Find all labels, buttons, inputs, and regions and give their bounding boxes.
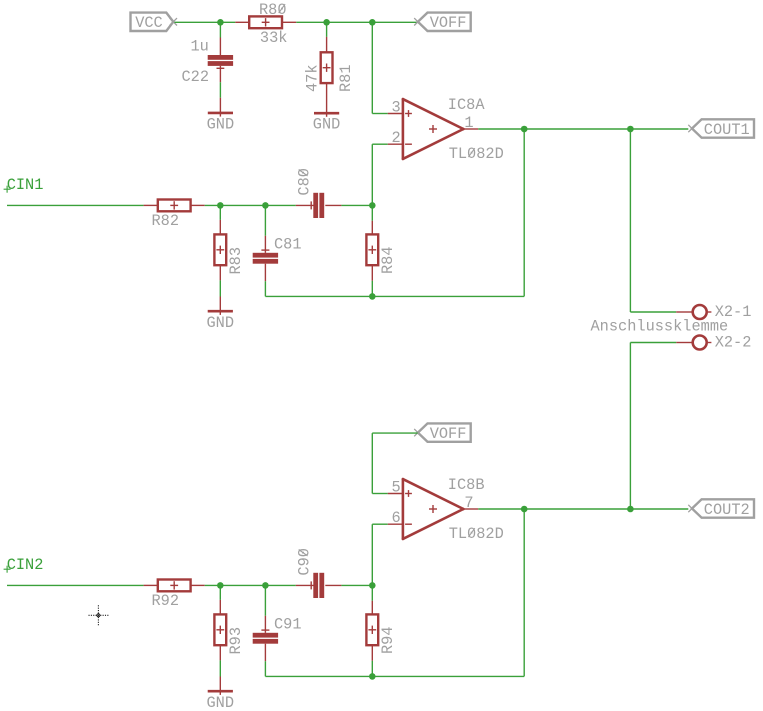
- svg-text:COUT2: COUT2: [704, 501, 750, 519]
- wire stub to C81: [264, 205, 266, 235]
- resistor R83: [219, 220, 221, 234]
- pin lead X2-2: [676, 342, 691, 344]
- wire input node: [205, 204, 296, 206]
- label R93: [227, 627, 245, 655]
- label C90: [296, 548, 314, 576]
- wire feedback bottom run 2: [265, 675, 524, 677]
- ground GND under C22: [219, 98, 221, 117]
- ground GND under R93: [219, 677, 221, 695]
- wire inverting node vertical: [371, 144, 373, 221]
- junction inverting node: [369, 202, 376, 209]
- connector pin X2-1: [693, 305, 707, 319]
- wire feedback vertical 2: [523, 509, 525, 676]
- wire X2-2 horizontal: [630, 342, 676, 344]
- resistor R93: [219, 600, 221, 614]
- svg-text:R93: R93: [227, 627, 245, 655]
- svg-text:VOFF: VOFF: [430, 425, 467, 443]
- svg-text:TL082D: TL082D: [449, 525, 504, 543]
- wire stub to R83: [219, 205, 221, 220]
- pin lead X2-1: [676, 311, 691, 313]
- op-amp IC8A: [403, 99, 464, 159]
- svg-text:R84: R84: [379, 246, 397, 274]
- wire VOFF2 to pin5: [372, 432, 417, 434]
- wire input node 2: [205, 584, 296, 586]
- ground GND under R83: [219, 297, 221, 315]
- wire stub to C91: [264, 585, 266, 615]
- svg-text:GND: GND: [207, 694, 235, 711]
- pin 2 lead: [388, 143, 404, 145]
- capacitor C81: [264, 236, 266, 253]
- junction VOFF tap: [369, 19, 376, 26]
- net flag VOFF lower: [418, 423, 471, 441]
- wire to X2-1 horizontal: [630, 311, 676, 313]
- label R84: [379, 246, 397, 274]
- wire R94 bottom: [371, 661, 373, 677]
- wire pin3 from VOFF rail: [371, 22, 373, 113]
- pin 3 lead: [388, 113, 404, 115]
- value 47k: [304, 64, 322, 92]
- svg-text:R82: R82: [152, 212, 180, 230]
- capacitor C80: [296, 204, 314, 206]
- cursor crosshair: [89, 614, 109, 616]
- label R83: [227, 247, 245, 275]
- svg-text:R92: R92: [152, 592, 180, 610]
- svg-text:R80: R80: [259, 1, 287, 19]
- svg-text:R94: R94: [379, 626, 397, 654]
- svg-text:47k: 47k: [304, 64, 322, 92]
- svg-text:3: 3: [392, 99, 401, 117]
- op-amp IC8B: [403, 479, 464, 539]
- label C80: [296, 168, 314, 196]
- svg-text:5: 5: [392, 479, 401, 497]
- wire X2-2 to COUT2 vertical: [629, 343, 631, 510]
- wire pin2 horizontal: [372, 143, 388, 145]
- junction feedback tap out1: [521, 126, 528, 133]
- wire C90 to inverting node: [341, 584, 372, 586]
- svg-text:GND: GND: [313, 116, 341, 134]
- svg-text:CIN2: CIN2: [7, 556, 44, 574]
- svg-text:X2-2: X2-2: [715, 334, 752, 352]
- svg-text:Anschlussklemme: Anschlussklemme: [591, 317, 729, 335]
- capacitor C22: [219, 38, 221, 56]
- pin 1 lead: [463, 128, 478, 130]
- resistor R92: [144, 584, 159, 586]
- resistor R84: [371, 221, 373, 235]
- label R81: [337, 64, 355, 92]
- svg-text:C91: C91: [274, 615, 302, 633]
- net flag VOFF upper: [418, 13, 471, 31]
- wire stub to R81: [326, 22, 328, 37]
- resistor R81: [326, 37, 328, 52]
- junction VCC/C22: [217, 19, 224, 26]
- wire feedback bottom run: [265, 295, 524, 297]
- capacitor C91: [264, 616, 266, 633]
- wire CIN1 input: [7, 204, 144, 206]
- junction R93 tap: [217, 582, 224, 589]
- wire R83 to GND: [219, 280, 221, 296]
- svg-text:R81: R81: [337, 64, 355, 92]
- pin 5 lead: [388, 493, 404, 495]
- svg-text:COUT1: COUT1: [704, 121, 750, 139]
- svg-text:C80: C80: [296, 168, 314, 196]
- junction feedback node: [369, 293, 376, 300]
- svg-text:VOFF: VOFF: [430, 14, 467, 32]
- pin 7 lead: [463, 508, 478, 510]
- junction X2-1 tap: [627, 126, 634, 133]
- svg-text:33k: 33k: [260, 29, 288, 47]
- net flag COUT1: [692, 119, 754, 137]
- junction feedback tap out2: [521, 506, 528, 513]
- svg-text:1: 1: [464, 114, 473, 132]
- pin 6 lead: [388, 523, 404, 525]
- wire C80 to inverting node: [341, 204, 372, 206]
- junction R81 tap: [323, 19, 330, 26]
- svg-text:C81: C81: [274, 235, 302, 253]
- svg-text:C22: C22: [182, 68, 210, 86]
- svg-text:TL082D: TL082D: [449, 145, 504, 163]
- svg-text:VCC: VCC: [135, 14, 163, 32]
- junction feedback node 2: [369, 673, 376, 680]
- wire inverting node vertical 2: [371, 524, 373, 601]
- svg-text:C90: C90: [296, 548, 314, 576]
- svg-text:GND: GND: [207, 314, 235, 332]
- wire output COUT2: [478, 508, 688, 510]
- wire stub to C22: [219, 22, 221, 37]
- wire to X2-1 vertical: [629, 129, 631, 312]
- wire VCC rail left: [175, 21, 236, 23]
- junction inverting node 2: [369, 582, 376, 589]
- resistor R80: [235, 21, 249, 23]
- svg-text:R83: R83: [227, 247, 245, 275]
- svg-text:2: 2: [392, 129, 401, 147]
- junction C81 tap: [262, 202, 269, 209]
- junction C91 tap: [262, 582, 269, 589]
- wire CIN2 input: [7, 584, 144, 586]
- connector pin X2-2: [693, 336, 707, 350]
- wire C22 to GND: [219, 82, 221, 98]
- svg-text:7: 7: [464, 494, 473, 512]
- svg-text:1u: 1u: [191, 38, 209, 56]
- wire R93 to GND: [219, 660, 221, 676]
- svg-text:GND: GND: [207, 116, 235, 134]
- wire pin6 horizontal: [372, 523, 388, 525]
- wire output COUT1: [478, 128, 688, 130]
- wire stub to R93: [219, 585, 221, 600]
- wire C91 corner: [264, 661, 266, 676]
- label R94: [379, 626, 397, 654]
- capacitor C90: [296, 584, 314, 586]
- resistor R82: [144, 204, 159, 206]
- svg-text:6: 6: [392, 509, 401, 527]
- wire R84 bottom: [371, 281, 373, 297]
- junction R83 tap: [217, 202, 224, 209]
- svg-text:CIN1: CIN1: [7, 176, 44, 194]
- wire feedback vertical: [523, 129, 525, 296]
- resistor R94: [371, 601, 373, 615]
- net flag COUT2: [692, 499, 754, 517]
- supply flag VCC: [131, 13, 174, 31]
- ground GND under R81: [314, 112, 339, 115]
- junction X2-2 tap: [627, 506, 634, 513]
- svg-text:IC8B: IC8B: [448, 476, 485, 494]
- wire C81 corner: [264, 281, 266, 296]
- svg-text:IC8A: IC8A: [448, 96, 486, 114]
- wire VCC rail right: [296, 21, 417, 23]
